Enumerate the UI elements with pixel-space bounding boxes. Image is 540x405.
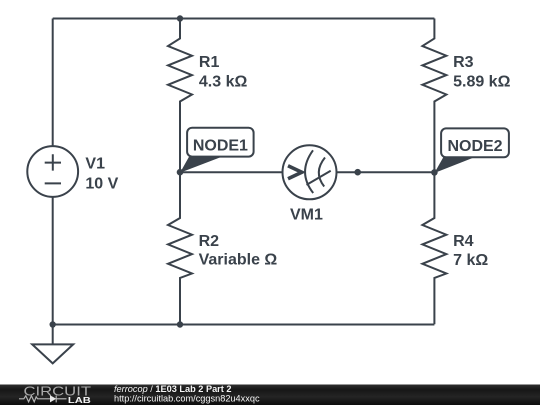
- ground: [52, 325, 54, 345]
- svg-text:NODE1: NODE1: [193, 137, 248, 154]
- node B junction dot NODE2: [431, 169, 438, 176]
- wire left column top: [52, 19, 54, 147]
- node NODE1 callout tail: [180, 157, 221, 173]
- svg-text:4.3 kΩ: 4.3 kΩ: [199, 74, 248, 91]
- CircuitLab logo zigzag diode glyph: [19, 396, 67, 403]
- resistor R1: [168, 19, 192, 173]
- resistor R4: [422, 172, 446, 324]
- wire node1 to voltmeter: [180, 171, 283, 173]
- svg-text:Variable Ω: Variable Ω: [199, 252, 278, 269]
- svg-text:V1: V1: [85, 156, 105, 173]
- wire voltmeter to node2: [337, 171, 435, 173]
- resistor R3: [422, 19, 446, 173]
- svg-text:5.89 kΩ: 5.89 kΩ: [453, 74, 510, 91]
- svg-text:LAB: LAB: [68, 395, 91, 405]
- svg-text:R1: R1: [199, 54, 220, 71]
- junction dot bottom of R2: [177, 321, 183, 327]
- node NODE2 callout tail: [434, 157, 473, 173]
- voltmeter VM1: [283, 145, 337, 199]
- node NODE1 callout box: [187, 128, 254, 157]
- svg-text:10 V: 10 V: [85, 176, 118, 193]
- junction dot voltmeter right terminal: [354, 169, 361, 176]
- svg-text:VM1: VM1: [290, 206, 323, 223]
- svg-text:R2: R2: [199, 233, 220, 250]
- svg-text:http://circuitlab.com/cggsn82u: http://circuitlab.com/cggsn82u4xxqc: [114, 394, 260, 404]
- wire top rail: [53, 18, 435, 20]
- svg-text:NODE2: NODE2: [447, 138, 502, 155]
- wire bottom rail: [53, 324, 435, 326]
- node A junction dot NODE1: [177, 169, 184, 176]
- svg-text:R3: R3: [453, 54, 474, 71]
- svg-text:7 kΩ: 7 kΩ: [453, 252, 488, 269]
- wire left column bottom: [52, 197, 54, 325]
- footer bar: [0, 385, 540, 405]
- node NODE2 callout box: [441, 128, 509, 157]
- resistor R2: [168, 172, 192, 324]
- svg-text:R4: R4: [453, 233, 474, 250]
- junction dot ground: [50, 321, 56, 327]
- junction dot top of R1: [177, 15, 183, 21]
- voltage source V1: [27, 146, 78, 197]
